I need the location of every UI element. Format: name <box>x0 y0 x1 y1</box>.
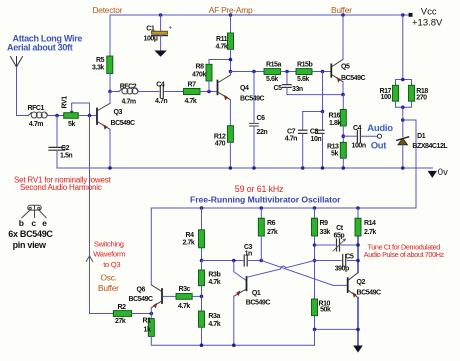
junction dot rail-R11 <box>229 13 233 17</box>
pin labels b c e <box>19 218 47 228</box>
svg-text:4.7k: 4.7k <box>178 303 190 310</box>
svg-text:Audio Pulse of about 700Hz: Audio Pulse of about 700Hz <box>364 250 445 259</box>
wire 0v rail <box>57 167 433 169</box>
svg-text:R5: R5 <box>96 57 105 64</box>
svg-text:Q1: Q1 <box>252 290 261 297</box>
wire R7 to Q4 base <box>200 91 217 93</box>
svg-text:R16: R16 <box>329 113 341 120</box>
svg-text:470k: 470k <box>192 72 206 79</box>
svg-text:C5: C5 <box>274 85 283 92</box>
svg-text:C4: C4 <box>353 125 362 132</box>
junction dot rail-R6 <box>260 206 264 210</box>
svg-text:R11: R11 <box>216 36 228 43</box>
svg-text:R3c: R3c <box>179 286 191 293</box>
resistor R13 <box>327 142 346 168</box>
svg-text:+13.8V: +13.8V <box>412 18 443 29</box>
svg-text:R3b: R3b <box>208 272 220 279</box>
transistor Q5 <box>331 15 365 95</box>
zener diode D1 <box>397 133 449 168</box>
svg-text:4.7n: 4.7n <box>155 98 167 105</box>
junction dot C8 top <box>321 110 325 114</box>
svg-text:R9: R9 <box>320 220 329 227</box>
node audio out terminal <box>377 134 381 138</box>
ground oscillator <box>353 346 363 353</box>
resistor R7 <box>184 82 201 105</box>
junction dot C7-0v <box>301 166 305 170</box>
wire Q5 base drop to C7/C8 row <box>303 72 323 112</box>
junction dot R13-0v <box>342 166 346 170</box>
svg-text:27k: 27k <box>267 229 278 236</box>
svg-text:Out: Out <box>371 140 388 151</box>
svg-text:4.7k: 4.7k <box>208 279 220 286</box>
capacitor C5 390p <box>315 254 359 273</box>
svg-text:5.6k: 5.6k <box>266 76 278 83</box>
svg-text:22n: 22n <box>257 129 268 136</box>
svg-text:C7: C7 <box>287 128 296 135</box>
svg-text:C8: C8 <box>310 128 319 135</box>
svg-text:C1: C1 <box>146 25 155 32</box>
svg-text:e: e <box>42 218 47 228</box>
svg-text:BC549C: BC549C <box>246 299 271 306</box>
junction dot R4 bottom node <box>200 259 204 263</box>
pin view package drawing <box>22 205 46 218</box>
resistor R18 <box>409 85 429 101</box>
svg-text:R8: R8 <box>196 64 205 71</box>
junction dot Q2 emitter <box>356 328 360 332</box>
junction dot R14-390p node <box>356 259 360 263</box>
inductor RFC1 <box>28 112 48 118</box>
junction dot D1-0v <box>401 166 405 170</box>
svg-text:2.7k: 2.7k <box>183 240 195 247</box>
wire Q1 collector cross diagonal with hop <box>247 261 314 278</box>
wire C5 bottom to Q5 emitter <box>287 94 343 96</box>
wire top Vcc rail <box>110 14 409 16</box>
junction dot Q1 emitter-bottom rail <box>232 343 236 347</box>
svg-text:RV1: RV1 <box>62 96 69 109</box>
svg-text:33n: 33n <box>292 86 303 93</box>
annotation Tune Ct <box>364 242 445 258</box>
junction dot Q4 collector node <box>229 70 233 74</box>
wire RV1 node down to R2 with arrow <box>86 116 113 314</box>
svg-text:0v: 0v <box>438 167 448 178</box>
svg-text:Ct: Ct <box>336 225 344 232</box>
svg-text:100: 100 <box>381 94 392 101</box>
wire RFC2 to C4 <box>139 91 159 93</box>
svg-text:BC549C: BC549C <box>129 296 154 303</box>
svg-text:R7: R7 <box>188 82 197 89</box>
junction dot R9-Ct <box>313 243 317 247</box>
junction dot rail-C1 <box>159 13 163 17</box>
wire osc supply drop <box>403 120 416 208</box>
wire R15a-R15b <box>281 71 297 73</box>
ground 0v arrow <box>428 171 437 178</box>
svg-text:4.7m: 4.7m <box>122 99 136 106</box>
junction dot R17R18 bottom <box>401 106 405 110</box>
wire R10 node to bottom rail <box>314 329 316 345</box>
svg-text:pin view: pin view <box>13 240 47 250</box>
junction dot RV1 wiper node / Q3 base <box>88 114 92 118</box>
svg-text:Q2: Q2 <box>357 279 366 286</box>
svg-text:100µ: 100µ <box>144 35 158 42</box>
wire oscillator supply rail <box>151 207 416 209</box>
junction dot C6 tap <box>252 70 256 74</box>
resistor R11 <box>216 15 234 72</box>
resistor R15b <box>296 62 312 84</box>
junction dot Q6 emitter / R1 / R2 <box>150 312 154 316</box>
transistor Q6 <box>129 208 177 314</box>
resistor R3b <box>199 261 221 297</box>
svg-text:470: 470 <box>215 140 226 147</box>
wire detector row <box>110 91 119 93</box>
resistor R17 <box>380 15 412 107</box>
wire R17R18 down to D1 <box>402 107 404 136</box>
svg-text:Osc.: Osc. <box>101 273 117 283</box>
svg-text:RFC2: RFC2 <box>120 83 137 90</box>
svg-text:59 or 61 kHz: 59 or 61 kHz <box>235 184 284 194</box>
svg-text:33k: 33k <box>320 229 331 236</box>
wire RV1 right <box>78 115 97 117</box>
svg-text:BC549C: BC549C <box>357 289 382 296</box>
node Vcc label <box>412 7 443 29</box>
svg-text:R12: R12 <box>214 133 226 140</box>
junction dot R5/RFC2/Q3 collector <box>108 90 112 94</box>
annotation Attach Long Wire Aerial <box>7 34 82 53</box>
svg-text:1k: 1k <box>144 327 151 334</box>
svg-text:4.7k: 4.7k <box>216 44 228 51</box>
svg-text:Q3: Q3 <box>114 109 123 116</box>
svg-text:C5: C5 <box>345 254 354 261</box>
svg-text:Detector: Detector <box>93 5 123 15</box>
transistor Q4 <box>218 72 265 126</box>
svg-text:6x BC549C: 6x BC549C <box>8 229 53 239</box>
svg-text:b: b <box>19 218 24 228</box>
svg-text:c: c <box>31 218 36 228</box>
svg-text:R14: R14 <box>364 220 376 227</box>
wire C3 row <box>202 260 243 262</box>
junction dot RFC1/RV1/C2 <box>55 114 59 118</box>
svg-text:R2: R2 <box>118 304 127 311</box>
svg-text:5k: 5k <box>68 121 75 128</box>
resistor R10 <box>312 299 331 329</box>
svg-text:4.7k: 4.7k <box>185 98 197 105</box>
junction dot D1 top / osc supply tap <box>401 118 405 122</box>
resistor R1 <box>143 314 315 346</box>
svg-text:3.3k: 3.3k <box>92 65 104 72</box>
potentiometer RV1 <box>62 96 90 128</box>
resistor R16 <box>329 95 347 143</box>
svg-text:C6: C6 <box>257 115 266 122</box>
resistor R8 <box>192 60 231 92</box>
svg-text:65p: 65p <box>334 233 345 240</box>
wire buffer row <box>231 71 265 73</box>
svg-text:10n: 10n <box>311 136 322 143</box>
capacitor C3 <box>244 244 261 266</box>
svg-text:27k: 27k <box>115 318 126 325</box>
antenna <box>11 57 23 68</box>
junction dot R3c node <box>200 295 204 299</box>
svg-text:BZX84C12L: BZX84C12L <box>412 143 448 150</box>
junction dot Q5 base node <box>321 70 325 74</box>
svg-text:R1: R1 <box>143 318 152 325</box>
wire C4 to R7 <box>165 91 184 93</box>
svg-text:1.5n: 1.5n <box>60 153 72 160</box>
svg-text:Buffer: Buffer <box>331 5 352 15</box>
svg-text:RFC1: RFC1 <box>28 105 45 112</box>
inductor RFC2 <box>119 88 139 94</box>
svg-text:Free-Running Multivibrator Osc: Free-Running Multivibrator Oscillator <box>190 195 341 205</box>
junction dot C8-0v <box>321 166 325 170</box>
capacitor C1 electrolytic <box>144 15 173 50</box>
junction dot R7/R8/Q4base <box>207 90 211 94</box>
capacitor C8 <box>310 112 324 169</box>
resistor R12 <box>214 126 234 168</box>
wire antenna down <box>17 67 29 116</box>
svg-text:Audio: Audio <box>367 123 393 134</box>
wire RFC1 to node <box>48 115 63 117</box>
wire Q2 base cross diagonal <box>261 261 347 286</box>
svg-text:R4: R4 <box>186 232 195 239</box>
resistor R15a <box>264 62 281 84</box>
junction dot C5 tap <box>285 70 289 74</box>
capacitor C5 33n <box>274 72 303 95</box>
svg-text:BC549C: BC549C <box>341 75 366 82</box>
svg-text:BC549C: BC549C <box>111 120 136 127</box>
svg-text:1.8k: 1.8k <box>329 120 341 127</box>
junction dot R6 bottom node <box>260 259 264 263</box>
section label Osc. Buffer <box>98 273 119 294</box>
transistor Q1 <box>234 277 271 345</box>
junction dot R12-0v <box>229 166 233 170</box>
resistor R6 <box>258 208 278 261</box>
junction dot rail-Q5 <box>341 13 345 17</box>
svg-text:Vcc: Vcc <box>421 7 437 18</box>
svg-text:50k: 50k <box>320 307 331 314</box>
capacitor C4 4.7n <box>155 81 167 105</box>
svg-text:390p: 390p <box>335 266 349 273</box>
capacitor C6 <box>250 72 268 169</box>
junction dot audio tap <box>342 134 346 138</box>
node Vcc terminal <box>409 13 413 17</box>
trimmer capacitor Ct <box>315 225 359 251</box>
svg-text:100n: 100n <box>352 143 366 150</box>
svg-text:R15a: R15a <box>266 62 281 69</box>
capacitor C7 <box>285 112 307 169</box>
junction dot Q1 base tap <box>232 259 236 263</box>
svg-text:4.7n: 4.7n <box>285 135 297 142</box>
resistor R9 <box>312 208 331 299</box>
svg-text:R13: R13 <box>327 144 339 151</box>
resistor R3a <box>199 296 221 345</box>
svg-text:Switching: Switching <box>94 239 124 248</box>
resistor R2 <box>113 304 151 325</box>
junction dot Q5 emitter node <box>341 93 345 97</box>
resistor R14 <box>355 208 376 273</box>
junction dot R3a-bottom rail <box>200 343 204 347</box>
annotation 6x BC549C pin view <box>8 229 53 250</box>
junction dot R10 bottom <box>313 328 317 332</box>
resistor R5 <box>92 15 113 92</box>
resistor R4 <box>183 208 205 261</box>
svg-text:+: + <box>169 26 173 32</box>
svg-text:C4: C4 <box>156 81 165 88</box>
capacitor C4 100n audio out <box>343 125 377 150</box>
svg-text:5k: 5k <box>331 151 338 158</box>
annotation Audio Out <box>367 123 393 152</box>
transistor Q2 <box>348 273 381 346</box>
junction dot rail-R17R18 <box>401 13 405 17</box>
svg-text:R15b: R15b <box>297 62 312 69</box>
svg-text:5.6k: 5.6k <box>297 76 309 83</box>
svg-text:BC549C: BC549C <box>240 95 265 102</box>
svg-text:Aerial about 30ft: Aerial about 30ft <box>7 43 73 53</box>
ground under C1 <box>154 51 166 57</box>
svg-text:270: 270 <box>416 95 427 102</box>
transistor Q3 <box>97 92 135 169</box>
svg-text:Q4: Q4 <box>240 85 249 92</box>
svg-text:4.7m: 4.7m <box>29 121 43 128</box>
capacitor C2 <box>49 116 72 169</box>
junction dot rail-R9 <box>313 206 317 210</box>
svg-text:2.7k: 2.7k <box>364 229 376 236</box>
junction dot rail-R4 <box>200 206 204 210</box>
svg-text:Buffer: Buffer <box>98 283 119 293</box>
svg-text:4.7k: 4.7k <box>208 321 220 328</box>
junction dot R14-Ct <box>356 243 360 247</box>
wire R15b to Q5 base <box>312 71 331 73</box>
svg-text:to Q3: to Q3 <box>103 260 120 269</box>
junction dot rail-R14 <box>356 206 360 210</box>
junction dot C6-0v <box>252 166 256 170</box>
annotation Set RV1 <box>14 176 111 193</box>
svg-text:D1: D1 <box>417 133 426 140</box>
junction dot R9-390p node <box>313 259 317 263</box>
svg-text:Waveform: Waveform <box>93 250 125 259</box>
svg-text:1n: 1n <box>245 251 252 258</box>
svg-text:C2: C2 <box>61 145 70 152</box>
svg-text:R6: R6 <box>267 220 276 227</box>
junction dot R17R18 top <box>401 78 405 82</box>
wire Q1 base stub <box>234 261 246 281</box>
svg-text:Q6: Q6 <box>137 287 146 294</box>
wire emitter row Q2 <box>315 328 359 330</box>
annotation Switching Waveform to Q3 <box>93 239 125 268</box>
svg-text:Q5: Q5 <box>341 64 350 71</box>
svg-text:R3a: R3a <box>208 313 220 320</box>
junction dot Q3 emitter-0v <box>108 166 112 170</box>
junction dot R11/R8 tap <box>229 58 233 62</box>
resistor R3c <box>176 286 202 310</box>
